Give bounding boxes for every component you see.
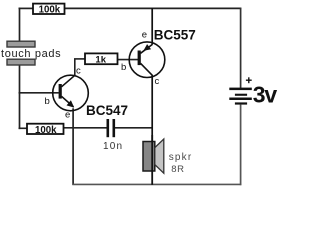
wire top-left from R1 to left rail	[19, 7, 34, 9]
battery plate long 1	[229, 88, 252, 91]
wire R2 to emitter rail	[64, 127, 74, 129]
transistor Q2 BC557	[129, 42, 165, 78]
wire capacitor left	[73, 127, 106, 129]
transistor Q1 BC547	[53, 75, 89, 111]
svg-text:10n: 10n	[103, 141, 123, 152]
svg-text:b: b	[45, 96, 50, 107]
wire through speaker	[151, 135, 153, 185]
resistor R1 100k box	[33, 4, 65, 16]
wire battery positive rail	[240, 8, 242, 88]
wire battery negative rail	[240, 105, 242, 186]
speaker SPK1 body	[143, 142, 155, 172]
touch pad upper plate	[7, 41, 35, 47]
svg-text:BC557: BC557	[154, 27, 196, 42]
svg-text:touch pads: touch pads	[1, 48, 61, 60]
speaker cone	[155, 139, 164, 173]
wire capacitor right to collector rail	[115, 127, 152, 129]
battery plate long 2	[229, 98, 252, 101]
wire top rail R1 to battery	[65, 7, 242, 9]
wire Q1 collector up	[74, 59, 76, 76]
svg-text:3v: 3v	[253, 82, 278, 108]
wire Q1 emitter rail down	[72, 108, 74, 185]
wire BC557 emitter rail to top	[151, 8, 153, 45]
svg-text:c: c	[76, 66, 81, 77]
wire to R3 left	[74, 58, 85, 60]
battery plate short 1	[235, 94, 247, 96]
wire bottom rail	[72, 183, 241, 185]
wire left rail lower (pad to R2)	[19, 65, 21, 129]
wire R3 right to Q2 base	[118, 59, 139, 61]
svg-text:1k: 1k	[95, 54, 106, 65]
svg-text:spkr: spkr	[169, 152, 193, 163]
svg-text:b: b	[121, 62, 126, 73]
battery B1 plus sign	[246, 77, 252, 83]
wire Q2 collector rail	[151, 75, 153, 142]
touch pad lower plate	[7, 59, 35, 65]
resistor R3 1k box	[85, 53, 118, 65]
wire base branch to Q1	[19, 92, 59, 94]
svg-text:8R: 8R	[171, 164, 184, 175]
resistor R2 100k box	[27, 124, 64, 136]
battery plate short 2	[235, 102, 247, 104]
svg-text:100k: 100k	[39, 4, 61, 15]
capacitor C1 plates	[107, 119, 116, 137]
svg-text:BC547: BC547	[86, 103, 128, 118]
wire into R2	[19, 127, 28, 129]
svg-text:100k: 100k	[35, 125, 57, 136]
svg-text:e: e	[65, 110, 70, 121]
svg-text:e: e	[142, 30, 147, 41]
svg-text:c: c	[155, 76, 160, 87]
wire left rail upper (to touch pad)	[19, 8, 21, 42]
